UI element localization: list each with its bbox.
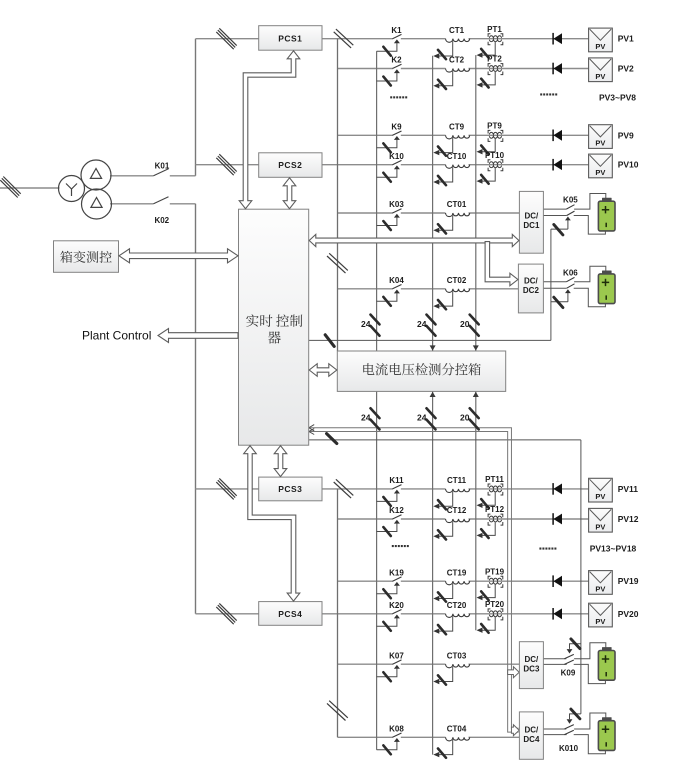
switch K010 pole1 blade [564,725,573,729]
wire switch K05 pole2 to battery bottom bracket [574,216,606,235]
wire K02 to lower bus [170,203,196,205]
control arrow K06 [551,289,571,302]
svg-text:CT12: CT12 [447,506,467,515]
box 箱变测控 [54,241,119,272]
switch K20 [377,610,402,627]
switch K2 [377,64,402,81]
triple slash PCS1 left [216,32,233,49]
svg-text:K02: K02 [154,216,169,225]
dots ellipsis bottom diode column [539,548,541,550]
wire row K2 segments [338,68,393,70]
svg-text:24: 24 [361,413,371,423]
control slash CT20 [438,625,446,634]
control arrow K010 [567,714,581,724]
svg-text:CT1: CT1 [449,26,465,35]
control slash PT19 [481,591,488,600]
svg-text:PV: PV [595,168,605,177]
control slash K03 [383,221,390,230]
svg-text:K07: K07 [389,651,404,660]
wire transformer bottom winding to K02 [110,203,154,205]
wire DC/DC to switch K09 pole1 [543,658,566,660]
svg-text:20: 20 [460,319,470,329]
svg-text:DC3: DC3 [523,665,540,674]
svg-text:24: 24 [361,319,371,329]
PV array box PV9 [589,125,613,149]
svg-text:K06: K06 [563,268,578,277]
wire row K07 segments [338,663,393,665]
wire-count slashes 20 at x=475.8 y=408.3 [470,408,479,418]
text 器 line2 [268,331,281,343]
PV array box PV20 [589,603,613,627]
arrowhead into detection box bottom at PT bus [473,392,479,397]
control slash PT20 [481,624,488,633]
control slash CT11 [438,500,446,509]
arrowhead into detection box bottom at CT bus [430,392,436,397]
wire switch K06 pole2 to battery bottom bracket [574,288,606,307]
line controller to K09/K010 control bus y=439.9 [309,439,581,441]
wire DC/DC to switch K010 pole1 [543,728,566,730]
switch K06 pole2 blade [567,284,575,288]
svg-text:PV: PV [595,139,605,148]
hollow feeder branch arrow into DC/DC3 [508,667,520,678]
potential transformer PT9 [482,130,503,151]
blocking diode row 1 [553,33,562,45]
svg-text:PV10: PV10 [618,160,639,170]
switch K09 pole1 blade [564,654,573,658]
wire PCS4 left [196,613,259,615]
control slash PT2 [481,79,488,88]
box PCS4 [259,602,322,626]
svg-text:PV20: PV20 [618,609,639,619]
switch K06 pole1 blade [566,277,574,281]
svg-text:PCS3: PCS3 [278,484,302,494]
hollow arrow controller to DC/DC1 [309,234,519,246]
svg-text:K010: K010 [559,744,579,753]
control slash CT9 [438,147,446,156]
hollow feeder line controller to DC/DC3 and DC/DC4 [309,428,519,729]
current transformer CT11 [433,489,469,509]
hollow feeder end arrow into DC/DC4 [511,725,519,736]
svg-text:PT11: PT11 [485,475,504,484]
wire switch K05 pole1 to battery top bracket [574,194,606,210]
svg-text:DC/: DC/ [525,725,540,734]
triple slash grid input [0,180,17,197]
svg-text:PV11: PV11 [618,484,639,494]
control slash PT12 [481,529,488,538]
box PCS1 [259,26,322,51]
transformer T1 [59,160,112,219]
control slash CT04 [438,749,446,758]
svg-text:PV13~PV18: PV13~PV18 [590,543,637,553]
svg-text:K1: K1 [391,26,402,35]
svg-text:K03: K03 [389,200,404,209]
wire-count slashes 20 at x=475.8 y=314.6 [470,315,479,325]
svg-text:CT04: CT04 [447,725,467,734]
battery B2 [598,271,615,304]
svg-text:K04: K04 [389,276,404,285]
wire row K1 segments [322,38,393,40]
potential transformer PT2 [482,64,503,85]
box PCS3 [259,477,322,501]
svg-text:PV: PV [595,585,605,594]
control slash CT19 [438,592,446,601]
arrowhead into detection box top at CT bus [430,345,436,350]
dots ellipsis top switch column [390,96,392,98]
triple slash PCS2 left [216,158,233,175]
switch K11 [377,485,402,502]
triple slash PCS3 left [216,482,233,499]
wire row K03 segments [338,212,393,214]
blocking diode row 19 [553,575,562,587]
current transformer CT1 [433,39,469,59]
blocking diode row 9 [553,130,562,142]
svg-text:K09: K09 [561,669,576,678]
svg-text:PCS1: PCS1 [278,34,302,44]
control slash K04 [383,297,390,306]
bus upper-left riser x=195.5 [195,39,197,176]
battery B1 [598,198,615,231]
wire row K19 segments [338,580,393,582]
svg-text:PT10: PT10 [485,151,505,160]
control slash K1 [383,47,390,56]
hollow arrow PCS2 to controller [283,178,296,209]
control slash CT02 [438,300,446,309]
wire row K9 segments [338,134,393,136]
svg-text:PV2: PV2 [618,64,634,74]
potential transformer PT1 [482,34,503,55]
svg-text:PV12: PV12 [618,514,639,524]
current transformer CT12 [433,519,469,539]
PV array box PV19 [589,571,613,595]
switch K08 [377,733,402,750]
svg-text:DC2: DC2 [523,286,540,295]
svg-text:CT03: CT03 [447,651,467,660]
control slash PT10 [481,175,488,184]
hollow arrow 箱变测控 to controller [119,249,238,263]
hollow arrow branch to DC/DC2 [485,242,518,286]
box controller 实时控制器 [239,209,309,445]
current transformer CT02 [433,289,469,309]
svg-text:CT19: CT19 [447,568,467,577]
blocking diode row 10 [553,159,562,171]
wire DC/DC to switch K09 pole2 [543,663,566,665]
control slash CT12 [438,530,446,539]
wire row K10 segments [322,164,393,166]
triple slash PCS4 left [216,607,233,624]
control slash K010 [571,709,580,719]
text 实时控制 line1 [246,314,258,326]
PV array box PV11 [589,478,613,502]
control slash PT1 [481,49,488,58]
bus K09/K010 control x=580.9 [580,440,582,714]
control slash K19 [383,589,390,598]
PV array box PV12 [589,508,613,532]
control slash K08 [383,745,390,754]
wire DC/DC to switch K05 pole1 [543,208,566,210]
control slash CT01 [438,224,446,233]
PV array box PV2 [589,58,613,82]
svg-text:20: 20 [460,413,470,423]
black slash on feeder line [327,434,337,444]
control slash CT1 [438,50,446,59]
svg-text:K9: K9 [391,123,402,132]
hollow arrow controller to PCS4 [244,446,300,601]
switch K03 [377,209,402,226]
svg-text:PV: PV [595,492,605,501]
current transformer CT20 [433,614,469,634]
box 电流电压检测分控箱 [337,351,505,391]
svg-text:Plant Control: Plant Control [82,329,151,343]
control slash K09 [571,639,580,649]
battery B3 [598,647,615,680]
wire row K12 segments [338,518,393,520]
svg-text:PCS2: PCS2 [278,160,302,170]
wire PCS1 left [196,38,259,40]
wire switch K09 pole2 to battery bottom bracket [574,664,606,683]
hollow arrow PCS1 to controller [239,51,300,209]
svg-text:PV: PV [595,42,605,51]
control slash K9 [383,143,390,152]
wire-count slashes 24 at x=376.6 y=314.6 [371,315,380,325]
wire-count slashes 24 at x=432.6 y=408.3 [427,408,436,418]
blocking diode row 12 [553,513,562,525]
chevron arrowheads at controller on feeder line [309,425,314,431]
wire switch K010 pole2 to battery bottom bracket [574,735,606,754]
control slash PT9 [481,146,488,155]
svg-text:PV: PV [595,72,605,81]
svg-text:K19: K19 [389,568,404,577]
box PCS2 [259,153,322,178]
svg-text:K08: K08 [389,725,404,734]
text 电流电压检测分控箱 [363,363,374,375]
wire switch K06 pole1 to battery top bracket [574,266,606,282]
current transformer CT2 [433,69,469,89]
switch K09 pole2 blade [564,660,573,664]
svg-text:CT11: CT11 [447,476,467,485]
blocking diode row 20 [553,608,562,620]
control slash K07 [383,672,390,681]
current transformer CT10 [433,165,469,185]
svg-text:DC/: DC/ [524,276,539,285]
switch K05 pole2 blade [567,211,575,215]
svg-text:PV: PV [595,522,605,531]
control slash PT11 [481,499,488,508]
current transformer CT04 [433,737,469,757]
control arrow K05 [551,217,571,230]
svg-text:PT9: PT9 [487,122,502,131]
potential transformer PT12 [482,514,503,535]
double slash bottom main bus [327,703,346,720]
bus main bottom x=337.5 [337,489,339,737]
svg-text:DC/: DC/ [525,655,540,664]
switch K05 pole1 blade [566,205,574,209]
dots ellipsis top diode column [540,93,542,95]
bus K05/K06 control x=550.9 [550,229,552,340]
svg-text:PV: PV [595,617,605,626]
svg-text:K11: K11 [389,476,404,485]
switch K12 [377,515,402,532]
wire DC/DC to switch K06 pole2 [543,287,566,289]
control slash K20 [383,622,390,631]
svg-text:CT2: CT2 [449,56,465,65]
svg-text:PCS4: PCS4 [278,609,302,619]
control slash K2 [383,77,390,86]
box DC/DC4 [519,712,543,759]
switch K19 [377,577,402,594]
svg-text:24: 24 [417,413,427,423]
blocking diode row 11 [553,483,562,495]
control slash K05 [554,225,563,235]
bus main top x=337.5 [337,39,339,351]
wire row K08 segments [338,736,393,738]
switch K010 pole2 blade [564,730,573,734]
current transformer CT19 [433,581,469,601]
wire switch K09 pole1 to battery top bracket [574,643,606,659]
bus lower-left riser x=195.5 [195,204,197,614]
svg-text:PV9: PV9 [618,130,634,140]
current transformer CT01 [433,213,469,233]
line controller to K05/K06 control bus y=340.4 [309,339,551,341]
wire-count slashes 24 at x=432.6 y=314.6 [427,315,436,325]
PV array box PV10 [589,154,613,178]
svg-text:24: 24 [417,319,427,329]
control slash CT10 [438,176,446,185]
control slash K06 [554,297,563,307]
svg-text:CT01: CT01 [447,200,467,209]
svg-text:K20: K20 [389,601,404,610]
switch K1 [377,34,402,51]
control arrow K09 [567,644,581,654]
wire DC/DC to switch K05 pole2 [543,215,566,217]
black slash on K05 control line [325,335,334,347]
current transformer CT9 [433,135,469,155]
svg-text:K01: K01 [155,162,170,171]
wire DC/DC to switch K010 pole2 [543,734,566,736]
control slash CT03 [438,675,446,684]
svg-text:PT19: PT19 [485,567,505,576]
potential transformer PT20 [482,609,503,630]
battery B4 [598,717,615,750]
hollow arrow controller to PCS3 [274,446,287,477]
bus K-control x=376.6 [376,51,378,750]
control slash CT2 [438,80,446,89]
svg-text:PT2: PT2 [487,55,502,64]
current transformer CT03 [433,664,469,684]
wire PCS2 left [196,164,259,166]
dots ellipsis bottom switch column [392,545,394,547]
wire switch K010 pole1 to battery top bracket [574,713,606,729]
box DC/DC1 [519,191,543,253]
box DC/DC3 [519,642,543,689]
wire row K11 segments [322,488,393,490]
potential transformer PT10 [482,160,503,181]
potential transformer PT11 [482,484,503,505]
svg-text:DC1: DC1 [523,221,540,230]
svg-text:CT10: CT10 [447,152,467,161]
text 箱变测控 [60,251,72,263]
svg-text:DC/: DC/ [525,212,540,221]
bus CT-control x=432.6 [432,56,434,755]
wire row K04 segments [338,288,393,290]
switch K07 [377,660,402,677]
svg-text:K2: K2 [391,56,402,65]
hollow arrow controller to Plant Control [158,329,238,343]
control slash K11 [383,497,390,506]
potential transformer PT19 [482,576,503,597]
switch K9 [377,131,402,148]
wire K01 to riser [170,175,196,177]
svg-text:CT02: CT02 [447,276,467,285]
svg-text:K10: K10 [389,152,404,161]
wire PCS3 left [196,488,259,490]
svg-text:PT20: PT20 [485,600,505,609]
control slash K12 [383,527,390,536]
control slash K10 [383,173,390,182]
box DC/DC2 [518,264,543,313]
wire-count slashes 24 at x=376.6 y=408.3 [371,408,380,418]
svg-text:PT1: PT1 [487,25,502,34]
arrowhead into detection box top at PT bus [473,345,479,350]
svg-text:DC4: DC4 [523,735,540,744]
double slash PCS1 right [334,32,351,48]
svg-text:PV3~PV8: PV3~PV8 [599,92,636,102]
switch K04 [377,285,402,302]
bus PT-control x=475.8 [475,55,477,630]
switch K02 [154,197,169,204]
svg-text:PV1: PV1 [618,34,634,44]
svg-text:K12: K12 [389,506,404,515]
double slash PCS3 right [334,482,351,498]
wire transformer top winding to K01 [110,175,154,177]
wire DC/DC to switch K06 pole1 [543,281,566,283]
PV array box PV1 [589,28,613,52]
svg-text:PV19: PV19 [618,576,639,586]
double slash top main bus [327,256,346,273]
svg-text:CT20: CT20 [447,601,467,610]
svg-text:K05: K05 [563,196,578,205]
wire row K20 segments [322,613,393,615]
svg-text:PT12: PT12 [485,505,505,514]
svg-text:CT9: CT9 [449,123,465,132]
blocking diode row 2 [553,63,562,75]
hollow arrow controller to detection box [309,364,337,377]
switch K01 [154,169,169,176]
wire grid input from left edge [0,187,60,189]
switch K10 [377,160,402,177]
